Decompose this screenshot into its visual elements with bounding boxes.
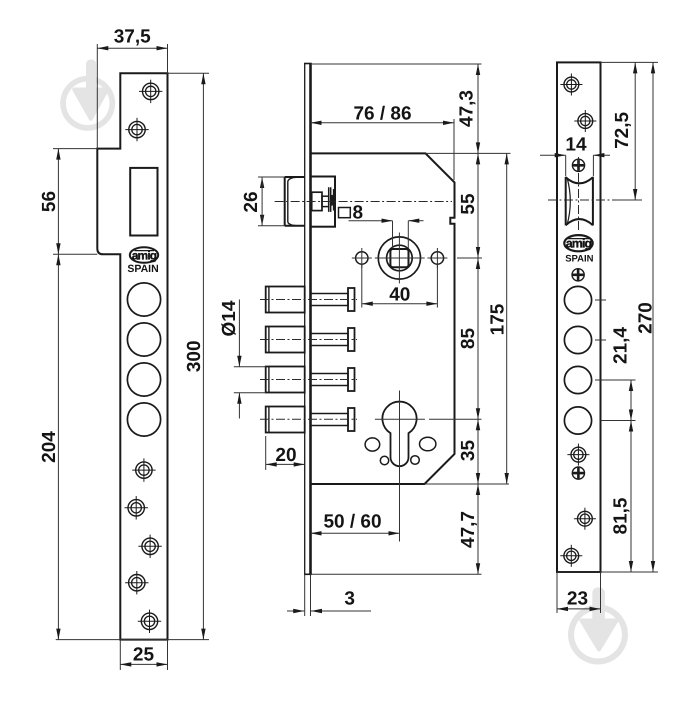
- roller end saddle curves: [566, 177, 593, 225]
- deadbolt pin 2 body: [266, 327, 355, 353]
- dim 50/60 line: [311, 532, 400, 534]
- svg-text:23: 23: [567, 589, 588, 610]
- latch clip: [329, 187, 334, 212]
- latch hub: [312, 192, 322, 210]
- cylinder screw slot right: [420, 437, 436, 451]
- dim 25 extension right: [167, 640, 169, 670]
- svg-text:55: 55: [458, 193, 479, 215]
- dim 20 line: [266, 463, 305, 465]
- dim 72,5 arrows: [633, 62, 637, 200]
- screw hole r4: [574, 508, 596, 530]
- roller centerlines: [548, 157, 612, 232]
- phillips screw top: [572, 159, 584, 171]
- svg-text:amig: amig: [566, 237, 592, 251]
- dim 23 arrows: [557, 607, 601, 611]
- dim 56 extension top: [53, 148, 97, 150]
- dim 47,7 arrows: [476, 484, 480, 574]
- follower side hole left: [356, 252, 368, 264]
- screw hole r2: [574, 110, 596, 132]
- svg-text:72,5: 72,5: [612, 111, 633, 148]
- MIDDLE-VIEW: [285, 64, 455, 575]
- watermark bottom-right: ring: [568, 605, 628, 665]
- svg-text:3: 3: [344, 589, 355, 610]
- dim 270 line: [652, 62, 654, 572]
- right stack extension faceplate top: [312, 63, 482, 65]
- svg-text:56: 56: [39, 191, 60, 212]
- svg-text:76 / 86: 76 / 86: [353, 104, 411, 125]
- lower screw hole 1: [132, 458, 155, 481]
- svg-text:47,7: 47,7: [458, 511, 479, 548]
- deadbolt pin 1 body: [266, 287, 355, 313]
- cylinder small hole right: [411, 456, 420, 465]
- dim 26 extensions and line: [258, 177, 285, 226]
- bolt circle crosshair ticks: [595, 300, 606, 380]
- dim 26 arrows: [260, 177, 264, 226]
- dim 21,4 arrows: [629, 380, 633, 421]
- pin 2 centerline: [260, 339, 357, 341]
- svg-text:25: 25: [133, 645, 155, 666]
- dim 23 line: [557, 608, 601, 610]
- dim 56 arrows: [56, 149, 60, 255]
- amig logo oval left view: [130, 247, 158, 263]
- dim 72,5 extension mid: [612, 199, 642, 201]
- pin 1 centerline: [260, 299, 357, 301]
- dim 37,5 arrows: [97, 46, 167, 50]
- amig logo oval right view: [564, 235, 592, 251]
- bolt hole circle 4: [127, 403, 160, 436]
- faceplate bottom cap: [304, 573, 312, 575]
- watermark top-left: arrow head: [74, 90, 107, 119]
- dim 3 extensions: [305, 574, 311, 616]
- dim 204 line: [57, 254, 59, 639]
- phillips screw mid: [572, 269, 584, 281]
- right stack extension follower: [457, 257, 482, 259]
- dim 40 arrows: [362, 302, 438, 306]
- dim 23 extensions: [557, 572, 601, 613]
- svg-text:Ø14: Ø14: [219, 300, 240, 336]
- right stack extension faceplate bottom: [312, 573, 482, 575]
- dim 40 line: [362, 303, 438, 305]
- lower screw hole 3: [138, 535, 161, 558]
- cylinder screw slot left: [365, 438, 380, 451]
- side holes crosshairs: [352, 248, 448, 268]
- dim 56 line: [57, 149, 59, 255]
- svg-text:amig: amig: [132, 249, 157, 263]
- bolt circle r4: [564, 407, 591, 434]
- dim 81,5 line: [630, 421, 632, 573]
- watermark top-left: arrow shaft: [86, 60, 96, 96]
- bolt circle r3: [564, 366, 591, 393]
- lower screw hole 4: [125, 571, 148, 594]
- dim 300 arrows: [201, 73, 205, 639]
- dim 35 arrows: [476, 419, 480, 484]
- follower outer circle: [378, 237, 420, 279]
- dim 37,5 line: [97, 47, 167, 49]
- latch housing box: [311, 177, 336, 227]
- dim 270 extension bottom: [557, 571, 658, 573]
- dim 72,5 extension top: [601, 61, 641, 63]
- right stack extension case top: [426, 152, 511, 154]
- dim 72,5 line: [634, 62, 636, 200]
- dim 55 line: [477, 153, 479, 258]
- svg-text:37,5: 37,5: [114, 27, 151, 48]
- dim Ø14 line lower: [238, 393, 240, 419]
- WATERMARKS: [60, 60, 628, 665]
- pin 4 / cylinder centerline: [260, 418, 357, 420]
- dim 55 arrows: [476, 153, 480, 258]
- dim 21,4 line: [630, 380, 632, 421]
- dim 8 line left tail: [349, 220, 393, 222]
- dim 14 tails: [540, 154, 610, 156]
- dim 76/86 right extension: [453, 119, 455, 180]
- faceplate edge-on right line: [309, 64, 312, 575]
- dim 270 arrows: [651, 62, 655, 572]
- svg-text:40: 40: [389, 284, 410, 305]
- dim 175 line: [506, 153, 508, 484]
- lower screw hole 5: [138, 610, 161, 633]
- svg-text:20: 20: [275, 445, 296, 466]
- right stack extension cylinder: [429, 418, 482, 420]
- latch hub neck: [322, 196, 329, 206]
- roller centerline vertical: [578, 157, 580, 232]
- deadbolt pin 4 body: [266, 407, 355, 433]
- LEFT-VIEW: [97, 73, 167, 639]
- cylinder crosshair vertical / 50-60 extension: [399, 391, 401, 542]
- left strike plate outline: [97, 73, 167, 639]
- follower crosshair horizontal: [375, 257, 425, 259]
- centerlines: [260, 202, 452, 420]
- screw hole top 1: [139, 80, 162, 103]
- bolt circle r1: [564, 286, 591, 313]
- dim 20 arrows: [266, 462, 305, 466]
- bolt circle r2: [564, 326, 591, 353]
- dim 25 extension left: [119, 640, 121, 670]
- dim 300 line: [202, 73, 204, 639]
- cylinder hole euro profile: [382, 402, 416, 467]
- deadbolt pins: [266, 287, 355, 433]
- follower inner circle: [387, 245, 413, 271]
- svg-text:47,3: 47,3: [457, 90, 478, 127]
- right stack extension case bottom: [425, 483, 510, 485]
- dim 37,5 extension line left: [96, 44, 98, 149]
- dim 8 extensions: [393, 221, 409, 248]
- dim 3 tails: [287, 610, 371, 612]
- faceplate top cap: [304, 63, 312, 65]
- roller centerline horizontal: [548, 199, 612, 201]
- dim 8 arrows: [382, 219, 420, 223]
- faceplate edge-on left line: [304, 64, 306, 575]
- dim 81,5 arrows: [629, 421, 633, 573]
- screw hole r5: [560, 545, 582, 567]
- svg-text:81,5: 81,5: [611, 497, 632, 534]
- latch head: [285, 177, 305, 226]
- svg-text:SPAIN: SPAIN: [565, 253, 593, 264]
- square 8 symbol: [339, 208, 351, 218]
- dim 14 arrows: [555, 153, 605, 157]
- dim 56 extension bottom: [53, 253, 97, 255]
- lock case outline: [311, 153, 455, 484]
- dim 300 extension bottom / 204 bottom: [56, 639, 209, 641]
- screw hole r3: [567, 444, 589, 466]
- follower crosshair vertical: [398, 233, 400, 284]
- deadbolt pin 3 body: [266, 367, 355, 393]
- dim 85 line: [477, 258, 479, 419]
- dim 270 extension top: [640, 61, 658, 63]
- latch head bevel lines: [288, 177, 297, 225]
- svg-text:85: 85: [458, 328, 479, 350]
- bolt hole circle 2: [127, 323, 160, 356]
- dim 25 line: [120, 663, 167, 665]
- RIGHT-VIEW: [557, 62, 601, 572]
- dim 47,3 arrows: [476, 64, 480, 153]
- follower side hole right: [431, 252, 443, 264]
- cylinder small hole left: [380, 456, 388, 464]
- dim 40 extensions: [362, 265, 438, 308]
- dim 21,4 extensions: [601, 380, 636, 421]
- dim 37,5 extension line right: [167, 44, 169, 73]
- dim 25 arrows: [120, 662, 167, 666]
- dim Ø14 arrows: [237, 356, 241, 404]
- roller latch: [566, 177, 593, 225]
- svg-text:204: 204: [39, 431, 60, 463]
- dim Ø14 line upper: [238, 300, 240, 367]
- screw hole top 2: [125, 118, 148, 141]
- dim 3 arrows: [293, 609, 322, 613]
- dim 47,7 line: [477, 484, 479, 574]
- latch centerline: [275, 201, 452, 203]
- dim 20 extension: [265, 436, 267, 470]
- dim 85 arrows: [476, 258, 480, 419]
- pin 3 centerline: [260, 379, 357, 381]
- follower square hole: [390, 249, 408, 267]
- lower screw hole 2: [125, 496, 148, 519]
- dim 76/86 arrows: [311, 121, 455, 125]
- screw hole r1: [560, 74, 582, 96]
- dim 175 arrows: [505, 153, 509, 484]
- watermark bottom-right: arrow head: [582, 621, 617, 650]
- dim 47,3 line: [477, 64, 479, 153]
- svg-text:50 / 60: 50 / 60: [323, 512, 381, 533]
- phillips screw bottom: [572, 467, 584, 479]
- svg-text:14: 14: [565, 135, 587, 156]
- svg-text:8: 8: [353, 203, 364, 224]
- svg-text:26: 26: [241, 191, 262, 212]
- dim 14 extensions: [566, 155, 594, 176]
- svg-text:21,4: 21,4: [611, 327, 632, 364]
- roller surface curve: [567, 178, 570, 224]
- dim Ø14 extensions: [234, 367, 266, 393]
- watermark top-left: ring: [60, 76, 115, 131]
- dim 35 line: [477, 419, 479, 484]
- dim 50/60 arrows: [311, 531, 400, 535]
- svg-text:SPAIN: SPAIN: [127, 263, 158, 275]
- dim 204 arrows: [56, 254, 60, 639]
- watermark bottom-right: arrow shaft: [592, 588, 605, 626]
- dim 76/86 line: [311, 122, 455, 124]
- svg-text:175: 175: [488, 303, 509, 335]
- svg-text:270: 270: [636, 302, 657, 334]
- latch window rectangle: [130, 168, 157, 236]
- dim 8 line right tail: [408, 220, 423, 222]
- cylinder crosshair horizontal: [375, 418, 425, 420]
- svg-text:35: 35: [458, 440, 479, 462]
- svg-text:300: 300: [184, 340, 205, 372]
- latch clip lens: [330, 195, 334, 206]
- dim 300 extension top: [168, 72, 210, 74]
- bolt hole circle 1: [127, 283, 160, 316]
- bolt hole circle 3: [127, 363, 160, 396]
- right faceplate outline: [557, 62, 601, 572]
